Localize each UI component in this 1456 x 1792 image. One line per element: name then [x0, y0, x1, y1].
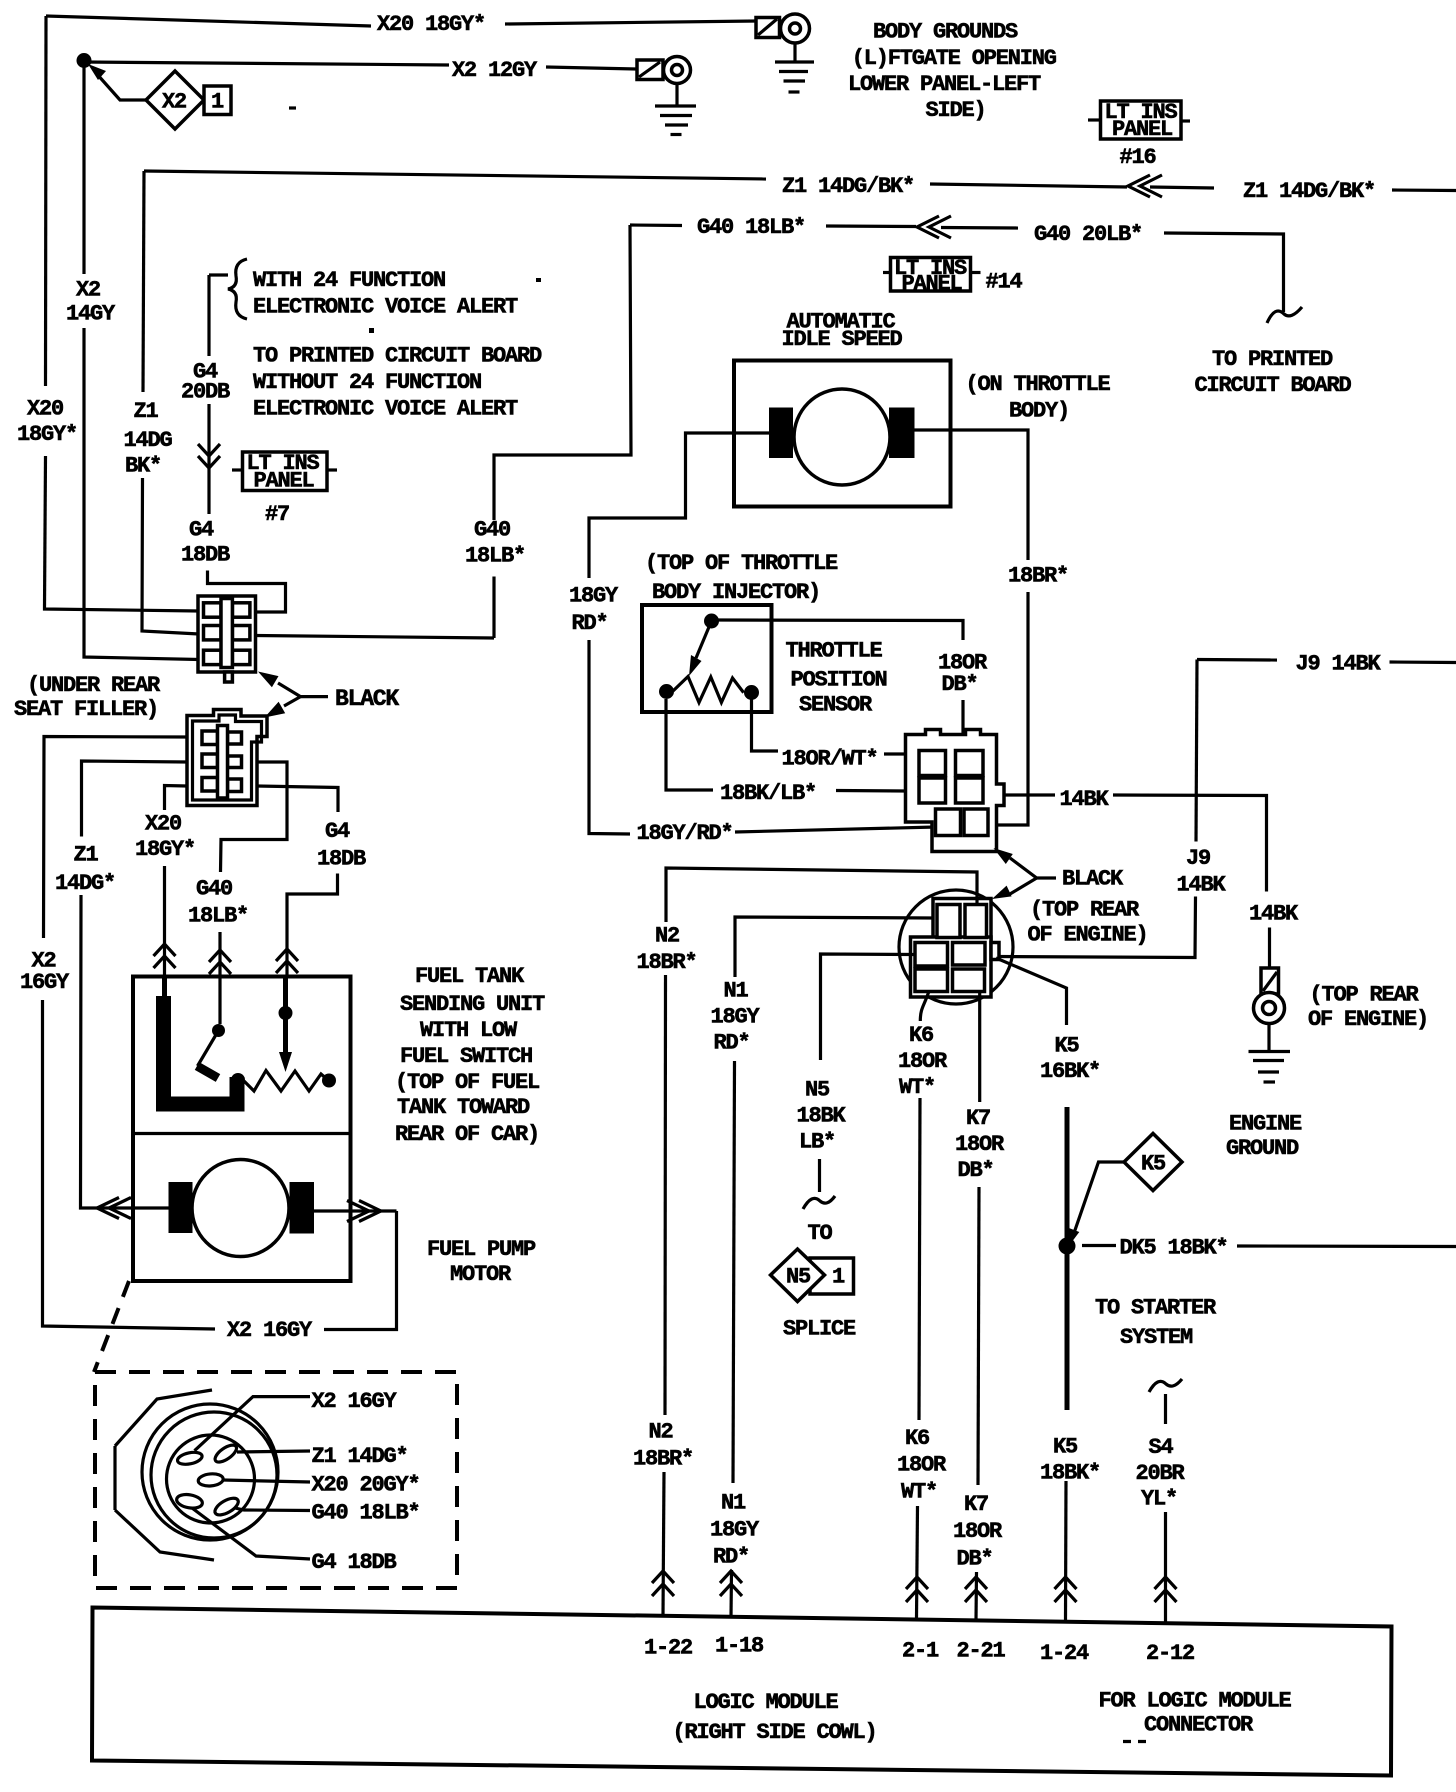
rheostat resistor zigzag	[244, 1071, 329, 1092]
svg-text:(TOP REAR: (TOP REAR	[1310, 983, 1420, 1008]
svg-text:SPLICE: SPLICE	[783, 1317, 856, 1342]
svg-text:RD*: RD*	[713, 1545, 749, 1570]
svg-text:BK*: BK*	[125, 454, 161, 479]
svg-text:X2 16GY: X2 16GY	[227, 1318, 313, 1343]
svg-text:18GY: 18GY	[710, 1518, 760, 1543]
svg-text:OF ENGINE): OF ENGINE)	[1308, 1007, 1428, 1032]
inline chevrons X20 (up)	[154, 944, 176, 968]
rheostat right end dot	[322, 1074, 336, 1088]
svg-text:2-1: 2-1	[902, 1639, 939, 1664]
svg-text:K6: K6	[909, 1023, 933, 1048]
inline chevrons N2 (up)	[652, 1571, 674, 1596]
wire G4 20DB vertical upper	[207, 275, 210, 356]
svg-text:SEAT FILLER): SEAT FILLER)	[14, 697, 158, 722]
dashed leader to connector detail	[94, 1281, 129, 1372]
leader arrow from X2-1 diamond to junction dot	[88, 64, 146, 100]
wire 18BR* vertical lower into TPS connector row3 right	[990, 592, 1028, 825]
wire X20 18GY* left vertical upper	[44, 16, 48, 386]
svg-text:N1: N1	[721, 1491, 746, 1516]
svg-text:Z1 14DG*: Z1 14DG*	[312, 1444, 408, 1469]
svg-text:CIRCUIT BOARD: CIRCUIT BOARD	[1195, 373, 1352, 398]
pin leader G4 18DB	[192, 1508, 310, 1559]
wire K6 to logic module	[917, 1506, 918, 1618]
svg-text:DB*: DB*	[942, 672, 978, 697]
text LOGIC MODULE (RIGHT SIDE COWL)	[673, 1690, 877, 1745]
component box LT INS PANEL #7	[232, 451, 337, 494]
svg-text:YL*: YL*	[1141, 1487, 1177, 1512]
wire 18GY/RD* into TPS connector row3	[735, 827, 936, 832]
svg-text:THROTTLE: THROTTLE	[786, 639, 883, 664]
svg-text:18OR/WT*: 18OR/WT*	[782, 747, 878, 772]
wire G40 18LB* riser and crossover	[492, 577, 495, 639]
TPS right terminal dot	[744, 685, 759, 700]
TPS top terminal dot	[704, 614, 719, 629]
wire K7 vertical long	[978, 1187, 979, 1485]
svg-text:N5: N5	[786, 1265, 811, 1290]
wire 14BK from TPS connector bump	[1004, 793, 1055, 796]
fuel pump motor right brush	[290, 1182, 315, 1234]
svg-text:FUEL TANK: FUEL TANK	[415, 964, 525, 989]
svg-text:N1: N1	[724, 979, 749, 1004]
svg-text:BODY GROUNDS: BODY GROUNDS	[873, 20, 1018, 45]
svg-text:SIDE): SIDE)	[926, 98, 986, 123]
svg-text:(UNDER REAR: (UNDER REAR	[27, 673, 161, 698]
svg-text:J9: J9	[1186, 846, 1210, 871]
wire 18OR DB* into TPS connector row1 right	[961, 700, 964, 754]
svg-text:16GY: 16GY	[20, 970, 70, 995]
svg-text:N2: N2	[655, 924, 679, 949]
svg-text:IDLE SPEED: IDLE SPEED	[782, 327, 903, 352]
text FUEL PUMP MOTOR	[427, 1237, 536, 1287]
wire X20 18GY* top horizontal left segment	[46, 16, 371, 26]
wire X20 18GY* vertical into tank	[163, 866, 166, 977]
speck period	[369, 328, 374, 333]
throttle position sensor box	[642, 605, 772, 712]
wire C2 row2 right (G40)	[221, 762, 288, 872]
text THROTTLE POSITION SENSOR	[786, 639, 887, 718]
connector reference diamond X2-1	[146, 71, 231, 129]
wire X2 16GY bottom right + riser to pump	[324, 1211, 397, 1330]
svg-text:TO PRINTED: TO PRINTED	[1212, 347, 1333, 372]
svg-text:14DG: 14DG	[124, 428, 173, 453]
svg-text:18BK/LB*: 18BK/LB*	[720, 781, 816, 806]
text TO PRINTED CIRCUIT BOARD WITHOUT 24 FUNCTION note	[253, 344, 542, 422]
wire G40 20LB* to printed circuit board	[1164, 233, 1284, 312]
engine connector upper cavity block	[933, 899, 991, 943]
ground bolt G3 (engine ground)	[1254, 968, 1285, 1052]
TPS resistor zigzag	[673, 677, 744, 703]
component box LT INS PANEL #14	[883, 256, 981, 297]
AIS motor circle	[794, 389, 890, 485]
text (TOP REAR OF ENGINE) for ground	[1308, 983, 1428, 1033]
svg-text:G40: G40	[196, 877, 232, 902]
svg-text:#14: #14	[986, 270, 1023, 295]
wire DK5 18BK* to right edge	[1237, 1244, 1456, 1248]
svg-text:(TOP OF FUEL: (TOP OF FUEL	[395, 1070, 540, 1095]
fuel tank sending unit box	[133, 977, 351, 1282]
break squiggle N5	[803, 1196, 835, 1209]
ground bolt G2 (body ground)	[637, 57, 691, 106]
svg-text:PANEL: PANEL	[254, 469, 315, 494]
svg-text:18LB*: 18LB*	[188, 904, 248, 929]
svg-text:14BK: 14BK	[1249, 902, 1299, 927]
svg-text:SENSOR: SENSOR	[799, 693, 873, 718]
wire G40 18LB* riser upper to G40 corner	[494, 225, 631, 520]
wire X2 14GY vertical upper	[82, 64, 85, 274]
svg-text:WITH 24 FUNCTION: WITH 24 FUNCTION	[253, 268, 445, 293]
TPS connector (4-pin, black)	[906, 730, 1005, 852]
wire 14BK to engine ground drop	[1113, 795, 1267, 892]
inline chevrons K5 (up)	[1055, 1577, 1077, 1602]
wire Z1 14DG* vertical lower to pump	[81, 895, 169, 1208]
wire N1 vertical long	[733, 1061, 735, 1483]
connector C2 (under rear seat filler, mating 3-pin)	[187, 710, 267, 806]
text TO PRINTED CIRCUIT BOARD	[1195, 347, 1352, 398]
svg-text:18BK: 18BK	[797, 1104, 847, 1129]
svg-text:Z1 14DG/BK*: Z1 14DG/BK*	[782, 174, 914, 199]
inline chevrons S4 (up)	[1155, 1577, 1177, 1602]
wire X2 12GY left segment	[84, 62, 449, 65]
wire Z1 right segment to edge	[1392, 188, 1456, 192]
svg-text:14BK: 14BK	[1060, 787, 1110, 812]
svg-text:18BR*: 18BR*	[1008, 564, 1068, 589]
AIS motor box	[734, 361, 951, 507]
svg-text:X2: X2	[76, 278, 100, 303]
TPS wiper arm with arrowhead	[689, 621, 712, 676]
logic module box	[92, 1608, 1392, 1776]
ground symbol G2 hatch	[655, 106, 696, 135]
svg-text:WT*: WT*	[901, 1480, 937, 1505]
wire X20 into connector C1 row1	[45, 607, 200, 611]
wire S4 upper stub	[1164, 1394, 1167, 1424]
wire TPS left terminal to 18BK/LB*	[666, 699, 713, 790]
svg-text:K6: K6	[905, 1426, 929, 1451]
rheostat wiper arrowhead	[279, 1052, 292, 1072]
wire G4 vertical into tank	[287, 874, 338, 978]
svg-text:1-24: 1-24	[1040, 1641, 1089, 1666]
wire C2 row3 left (X20 18GY*)	[165, 786, 188, 811]
svg-text:LB*: LB*	[799, 1130, 835, 1155]
svg-text:#16: #16	[1120, 145, 1156, 170]
ground symbol G1 hatch	[775, 62, 814, 92]
text FOR LOGIC MODULE CONNECTOR	[1099, 1689, 1292, 1738]
wire X2 16GY vertical lower + bottom run	[43, 1000, 216, 1329]
wire Z1 left vertical upper	[143, 171, 144, 392]
svg-text:X20 20GY*: X20 20GY*	[312, 1473, 420, 1498]
wire K6 vertical long	[919, 1098, 920, 1420]
svg-text:#7: #7	[265, 502, 289, 527]
sender heavy L-bracket element	[164, 996, 238, 1104]
wire X20 18GY* top horizontal right segment	[505, 21, 757, 24]
low fuel switch arm	[198, 1031, 219, 1067]
svg-text:18LB*: 18LB*	[465, 544, 525, 569]
svg-text:REAR OF CAR): REAR OF CAR)	[395, 1122, 539, 1147]
svg-text:RD*: RD*	[714, 1031, 750, 1056]
wire C2 row1 left (X2 16GY)	[44, 737, 188, 939]
svg-text:ELECTRONIC VOICE ALERT: ELECTRONIC VOICE ALERT	[253, 295, 518, 320]
svg-text:G40 20LB*: G40 20LB*	[1034, 222, 1142, 247]
text (TOP REAR OF ENGINE) for TPS connector	[1028, 898, 1148, 948]
fuel pump motor circle	[192, 1160, 289, 1257]
wire G40 vertical into tank	[218, 932, 221, 1024]
ground symbol G3 hatch	[1249, 1052, 1291, 1083]
divider line sending unit / pump	[133, 1132, 351, 1135]
text BODY GROUNDS note	[848, 20, 1057, 124]
AIS motor left brush	[769, 408, 793, 459]
5-pin round connector body circles	[142, 1404, 278, 1540]
wire C2 row2 left (Z1 14DG*)	[82, 761, 188, 837]
wire G40 middle segment	[826, 224, 916, 228]
wire X20 18GY* left vertical lower	[45, 456, 46, 607]
svg-text:18OR: 18OR	[955, 1132, 1005, 1157]
svg-text:BLACK: BLACK	[335, 686, 399, 712]
pin leader Z1 14DG*	[237, 1451, 310, 1452]
svg-text:GROUND: GROUND	[1226, 1136, 1299, 1161]
wire G40 corner segment at top	[630, 223, 682, 227]
wire 18OR/WT* into TPS connector row1 left	[884, 752, 906, 755]
node junction dot X2	[77, 53, 92, 68]
brace for WITH 24 FUNCTION note	[209, 259, 247, 319]
wire S4 to logic module	[1164, 1512, 1167, 1622]
svg-text:18GY: 18GY	[711, 1005, 761, 1030]
wire K5 from engine connector right side	[996, 958, 1067, 1025]
svg-text:DB*: DB*	[958, 1158, 994, 1183]
svg-text:G40 18LB*: G40 18LB*	[697, 215, 805, 240]
wire C1 row2 right to G40 18LB* riser	[256, 636, 495, 639]
svg-text:1: 1	[832, 1265, 845, 1290]
wire N1 from engine connector top-left cavity	[735, 917, 933, 977]
wire K6 from engine connector bottom-left cavity	[920, 993, 928, 1022]
svg-text:POSITION: POSITION	[791, 668, 887, 693]
svg-text:14BK: 14BK	[1177, 873, 1227, 898]
svg-text:X2 16GY: X2 16GY	[312, 1389, 398, 1414]
svg-text:TO STARTER: TO STARTER	[1095, 1296, 1217, 1321]
svg-text:G4 18DB: G4 18DB	[312, 1550, 397, 1575]
inline chevrons G40 (up)	[209, 950, 231, 974]
svg-text:N5: N5	[805, 1078, 830, 1103]
wire AIS left lead to 18GY RD* riser	[589, 433, 769, 578]
wire G4 18DB into connector C1 row1 right	[208, 571, 286, 613]
svg-text:MOTOR: MOTOR	[450, 1262, 512, 1287]
wire N5 below label	[818, 1159, 821, 1192]
svg-text:BLACK: BLACK	[1062, 867, 1124, 892]
inline chevrons G4 (up)	[276, 949, 298, 973]
svg-text:X20: X20	[145, 812, 181, 837]
AIS motor right brush	[889, 408, 915, 459]
svg-text:DB*: DB*	[957, 1547, 993, 1572]
pin cavity ovals	[176, 1442, 241, 1518]
svg-text:WT*: WT*	[899, 1075, 935, 1100]
inline chevrons K7 (up)	[965, 1577, 987, 1602]
engine harness connector body circle	[899, 890, 1013, 1004]
wire 18BK/LB* into TPS connector row2 left	[836, 789, 906, 793]
sender contact dot	[231, 1073, 245, 1087]
low fuel switch pivot dot (G40)	[212, 1024, 225, 1037]
svg-text:G40: G40	[474, 518, 510, 543]
svg-text:LOGIC MODULE: LOGIC MODULE	[694, 1690, 839, 1715]
svg-text:TO: TO	[808, 1221, 833, 1246]
svg-text:TANK TOWARD: TANK TOWARD	[397, 1095, 530, 1120]
node splice dot DK5	[1059, 1238, 1076, 1255]
TPS left terminal dot	[659, 684, 674, 699]
svg-text:(TOP REAR: (TOP REAR	[1030, 898, 1140, 923]
wire X2 14GY vertical lower into connector C1 row3	[84, 328, 199, 660]
wire G40 segment to label	[941, 226, 1018, 230]
wire Z1 left vertical lower into connector C1 row2	[142, 478, 199, 634]
pin leader G40 18LB*	[235, 1508, 310, 1511]
wire Z1 middle segment	[930, 184, 1127, 187]
inline connector chevrons Z1 (<<)	[1128, 175, 1214, 197]
svg-text:18OR: 18OR	[897, 1453, 947, 1478]
callout BLACK (connectors C1/C2)	[258, 672, 399, 718]
svg-text:K5: K5	[1055, 1034, 1080, 1059]
wire X2 12GY right segment	[546, 67, 637, 69]
low fuel switch arm contact tip	[197, 1066, 218, 1078]
wire G4 20DB vertical lower	[207, 404, 210, 514]
svg-text:K5: K5	[1141, 1152, 1166, 1177]
svg-text:K7: K7	[964, 1492, 988, 1517]
svg-text:FUEL SWITCH: FUEL SWITCH	[400, 1044, 532, 1069]
pin leader X2 16GY	[195, 1397, 311, 1451]
reference diamond K5	[1124, 1134, 1182, 1191]
svg-text:SYSTEM: SYSTEM	[1120, 1325, 1193, 1350]
break squiggle S4	[1149, 1379, 1182, 1392]
svg-text:FOR LOGIC MODULE: FOR LOGIC MODULE	[1099, 1689, 1292, 1714]
svg-text:G4: G4	[325, 819, 350, 844]
svg-text:(TOP OF THROTTLE: (TOP OF THROTTLE	[645, 551, 838, 576]
svg-text:2-21: 2-21	[957, 1639, 1006, 1664]
wire N2 from engine connector top right	[666, 868, 977, 922]
component box LT INS PANEL #16	[1088, 100, 1190, 142]
wire DK5 18BK* from dot	[1082, 1244, 1116, 1247]
svg-text:18BK*: 18BK*	[1040, 1461, 1100, 1486]
fuel pump motor left brush	[169, 1182, 193, 1233]
wire pump right lead	[314, 1209, 397, 1212]
svg-text:Z1 14DG/BK*: Z1 14DG/BK*	[1243, 179, 1375, 204]
rheostat wiper dot	[279, 1006, 293, 1020]
text (UNDER REAR SEAT FILLER)	[14, 673, 161, 722]
sender element stub (X20)	[162, 977, 167, 996]
svg-text:PANEL: PANEL	[1112, 117, 1173, 142]
svg-text:TO PRINTED CIRCUIT BOARD: TO PRINTED CIRCUIT BOARD	[253, 344, 542, 369]
svg-text:ENGINE: ENGINE	[1229, 1112, 1302, 1137]
engine connector lower cavity block	[911, 937, 992, 997]
dashed detail box	[95, 1372, 457, 1588]
svg-text:(RIGHT SIDE COWL): (RIGHT SIDE COWL)	[673, 1720, 877, 1745]
svg-text:G4: G4	[189, 518, 214, 543]
svg-text:X2: X2	[162, 90, 186, 115]
wire 18GY/RD* vertical lower	[589, 640, 630, 834]
text TO STARTER SYSTEM	[1095, 1296, 1217, 1351]
text AUTOMATIC IDLE SPEED	[782, 310, 903, 353]
svg-text:BODY): BODY)	[1009, 399, 1069, 424]
text ENGINE GROUND	[1226, 1112, 1302, 1162]
wire N5 from engine connector mid-left cavity	[821, 954, 916, 1060]
svg-text:14DG*: 14DG*	[55, 871, 115, 896]
svg-text:14GY: 14GY	[66, 302, 116, 327]
svg-text:X20 18GY*: X20 18GY*	[377, 12, 485, 37]
svg-text:1-22: 1-22	[644, 1636, 692, 1661]
ground bolt G1 (body ground, liftgate)	[756, 14, 810, 62]
small dashes under CONNECTOR	[1123, 1740, 1153, 1743]
svg-text:18GY*: 18GY*	[135, 837, 195, 862]
inline connector chevrons G4 (down)	[198, 444, 220, 468]
svg-text:K7: K7	[966, 1106, 990, 1131]
wire N2 vertical long	[663, 975, 667, 1415]
wire K7 from engine connector bottom-right cavity	[978, 993, 981, 1103]
svg-text:X2 12GY: X2 12GY	[452, 58, 538, 83]
rheostat wiper stem (G4) thick	[283, 977, 288, 1056]
pin leader X20 20GY*	[223, 1480, 310, 1482]
wire K7 to logic module	[974, 1572, 978, 1620]
text WITH 24 FUNCTION EVA note	[253, 268, 518, 320]
wire TPS top terminal to 18OR DB*	[718, 620, 963, 640]
svg-text:18DB: 18DB	[181, 543, 230, 568]
svg-text:16BK*: 16BK*	[1040, 1059, 1100, 1084]
text (ON THROTTLE BODY)	[966, 372, 1111, 424]
wire Z1 horizontal from corner	[144, 171, 766, 179]
svg-text:WITHOUT 24 FUNCTION: WITHOUT 24 FUNCTION	[253, 370, 481, 395]
text (TOP OF THROTTLE BODY INJECTOR)	[645, 551, 838, 605]
svg-text:1-18: 1-18	[715, 1634, 764, 1659]
inline connector chevrons G40 (<<)	[917, 216, 951, 238]
wire 14BK into ground bolt	[1268, 928, 1271, 969]
svg-text:RD*: RD*	[572, 611, 608, 636]
svg-text:S4: S4	[1149, 1435, 1174, 1460]
wire TPS right terminal to 18OR/WT*	[752, 699, 779, 751]
svg-text:Z1: Z1	[134, 399, 159, 424]
splice reference diamond N5-1	[771, 1249, 854, 1302]
svg-text:18DB: 18DB	[317, 847, 366, 872]
svg-text:WITH LOW: WITH LOW	[420, 1018, 518, 1043]
svg-text:ELECTRONIC VOICE ALERT: ELECTRONIC VOICE ALERT	[253, 397, 518, 422]
svg-text:DK5 18BK*: DK5 18BK*	[1120, 1236, 1228, 1261]
text FUEL TANK SENDING UNIT note	[395, 964, 545, 1147]
leader arrow from K5 diamond to splice dot	[1068, 1162, 1124, 1247]
speck dot	[536, 278, 541, 282]
speck dash top middle	[289, 106, 296, 109]
svg-text:(L)FTGATE OPENING: (L)FTGATE OPENING	[852, 46, 1057, 71]
svg-text:18GY: 18GY	[569, 584, 619, 609]
inline chevrons pump left lead (<<)	[97, 1198, 131, 1219]
svg-text:20BR: 20BR	[1136, 1461, 1186, 1486]
5-pin round connector flange	[115, 1390, 214, 1560]
svg-text:18GY*: 18GY*	[17, 422, 77, 447]
svg-text:18GY/RD*: 18GY/RD*	[637, 821, 733, 846]
svg-text:N2: N2	[649, 1420, 673, 1445]
svg-text:(ON THROTTLE: (ON THROTTLE	[966, 372, 1111, 397]
wire K5 to logic module	[1064, 1481, 1068, 1620]
wire AIS right lead (18BR*)	[915, 430, 1029, 560]
svg-text:18BR*: 18BR*	[633, 1447, 693, 1472]
callout BLACK (TPS + engine connectors)	[992, 848, 1124, 899]
svg-text:2-12: 2-12	[1146, 1641, 1194, 1666]
svg-text:SENDING UNIT: SENDING UNIT	[400, 992, 545, 1017]
wire K5 vertical thick through splice dot	[1065, 1107, 1070, 1410]
inline chevrons K6 (up)	[906, 1577, 928, 1602]
svg-text:FUEL PUMP: FUEL PUMP	[427, 1237, 536, 1262]
svg-text:20DB: 20DB	[181, 380, 230, 405]
engine connector cavities	[915, 905, 999, 992]
svg-text:LOWER PANEL-LEFT: LOWER PANEL-LEFT	[848, 72, 1041, 97]
svg-text:PANEL: PANEL	[902, 272, 963, 297]
svg-text:G40 18LB*: G40 18LB*	[312, 1501, 420, 1526]
svg-text:K5: K5	[1053, 1435, 1078, 1460]
wire C2 row3 right (G4)	[257, 786, 338, 812]
connector C1 (under rear seat filler, 3-pin body)	[198, 596, 256, 682]
svg-text:J9 14BK: J9 14BK	[1296, 652, 1382, 677]
wire J9 vertical upper	[1196, 660, 1197, 842]
